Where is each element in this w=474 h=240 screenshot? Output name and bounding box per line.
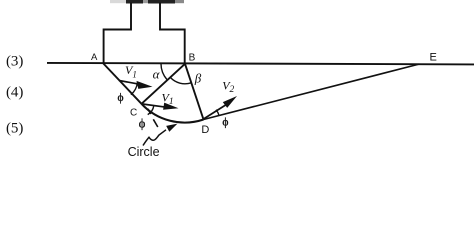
svg-text:ϕ: ϕ: [139, 117, 146, 131]
angle arc phi at D: [216, 110, 219, 116]
arrow V1 upper: [119, 81, 153, 89]
svg-text:(4): (4): [6, 85, 24, 101]
svg-text:V1: V1: [125, 63, 137, 79]
angle arc alpha at B: [161, 64, 167, 80]
wire A-C wedge face: [103, 63, 142, 104]
svg-text:A: A: [91, 52, 98, 63]
svg-text:E: E: [430, 51, 437, 63]
wire B-C radius: [142, 64, 186, 104]
svg-text:Circle: Circle: [128, 145, 160, 156]
circle wavefront arc C to D: [142, 104, 204, 123]
arrow V2 at D: [204, 96, 238, 119]
angle arc beta at B: [170, 77, 191, 83]
probe body left outline: [104, 3, 131, 63]
svg-text:V2: V2: [222, 79, 234, 96]
angle arc phi at A arrow: [131, 82, 138, 94]
svg-text:(5): (5): [6, 120, 24, 136]
svg-text:ϕ: ϕ: [222, 116, 228, 128]
dashed circle extension below C: [148, 109, 158, 127]
svg-text:ϕ: ϕ: [117, 92, 123, 104]
surface line: [47, 63, 474, 65]
svg-text:C: C: [130, 107, 137, 118]
transducer crystal bar: [110, 0, 184, 4]
arrow V1 lower at C: [143, 103, 179, 110]
probe body right outline: [160, 3, 185, 64]
svg-text:β: β: [194, 71, 202, 86]
svg-text:B: B: [189, 53, 196, 64]
wire D-E surface ray: [204, 64, 420, 119]
circle pointer squiggle: [143, 124, 178, 146]
angle arc phi at C: [148, 106, 154, 115]
svg-text:(3): (3): [6, 54, 24, 70]
svg-text:D: D: [201, 124, 209, 136]
svg-text:α: α: [153, 67, 161, 82]
wire B-D radius: [185, 64, 204, 120]
